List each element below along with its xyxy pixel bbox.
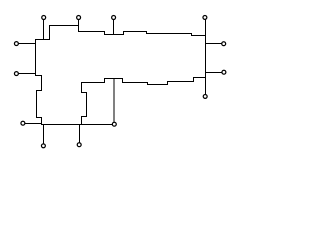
terminal P8 xyxy=(21,121,25,125)
wire step x123.5 xyxy=(123,32,125,35)
wire left vertical x41.5 upper xyxy=(41,76,43,91)
wire y81.5 horizontal xyxy=(168,81,194,83)
wire y31.5 horizontal right xyxy=(124,31,147,33)
wire y33 horizontal xyxy=(147,33,192,35)
wire pin3 stem xyxy=(113,20,115,35)
wire y77 horizontal xyxy=(194,77,206,79)
terminal P13 xyxy=(203,94,207,98)
wire mid jog y116.5 xyxy=(82,116,87,118)
wire step x193.5 xyxy=(193,78,195,82)
wire left lower vertical x41.5 xyxy=(41,118,43,125)
wire bottom horizontal y124.5 xyxy=(42,124,113,126)
terminal P2 xyxy=(77,16,81,20)
wire right vertical x205.5 xyxy=(205,36,207,95)
wire step x104.5 mid xyxy=(104,79,106,83)
wire left jog y90.5 xyxy=(37,90,42,92)
wire step x191.5 xyxy=(191,34,193,36)
wire pin6 stem xyxy=(19,73,36,75)
wire corner y75.5 xyxy=(36,75,42,77)
terminal P1 xyxy=(42,16,46,20)
wire y35.5 horizontal xyxy=(192,35,206,37)
wire pin11 stem xyxy=(206,43,222,45)
wire pin8 stem xyxy=(26,123,42,125)
terminal P4 xyxy=(203,15,207,19)
wire mid-right vertical x114 xyxy=(113,79,115,122)
wire mid jog y92.5 xyxy=(82,92,87,94)
wire pin10 stem xyxy=(79,125,81,143)
wire y78.5 horizontal xyxy=(105,78,123,80)
wire y25 horizontal xyxy=(50,25,79,27)
wire pin4 stem xyxy=(205,20,207,36)
wire top-left horizontal xyxy=(36,39,50,41)
wire pin12 stem xyxy=(206,72,222,74)
terminal P10 xyxy=(77,143,81,147)
wire y31.5 horizontal xyxy=(79,31,105,33)
wire pin1 stem xyxy=(43,20,45,40)
terminal P6 xyxy=(14,72,18,76)
wire step x167.5 xyxy=(167,82,169,85)
wire mid-left vertical x81.5 lower xyxy=(81,117,83,125)
terminal P14 xyxy=(112,122,116,126)
wire pin9 stem xyxy=(43,125,45,144)
terminal P12 xyxy=(222,70,226,74)
wire left vertical x36.5 xyxy=(36,91,38,118)
wire y82.5 horizontal xyxy=(123,82,148,84)
terminal P11 xyxy=(222,42,226,46)
wire pin2 stem xyxy=(78,20,80,32)
wire step x146.5 xyxy=(146,32,148,34)
terminal P3 xyxy=(112,16,116,20)
terminal P9 xyxy=(41,144,45,148)
terminal P5 xyxy=(14,42,18,46)
wire step x122.5 xyxy=(122,79,124,83)
wire y84.5 horizontal xyxy=(148,84,168,86)
wire corner vertical x49.5 xyxy=(49,26,51,40)
wire left jog y117.5 xyxy=(37,117,42,119)
wire left main vertical x35.5 xyxy=(35,40,37,76)
wire step x104.5 xyxy=(104,32,106,35)
wire y34 horizontal xyxy=(105,34,124,36)
wire mid-left vertical x81.5 upper xyxy=(81,83,83,93)
wire step x147.5 xyxy=(147,83,149,85)
wire pin5 stem xyxy=(19,43,36,45)
wire mid vertical x86.5 xyxy=(86,93,88,117)
wire y82 horizontal left xyxy=(82,82,105,84)
